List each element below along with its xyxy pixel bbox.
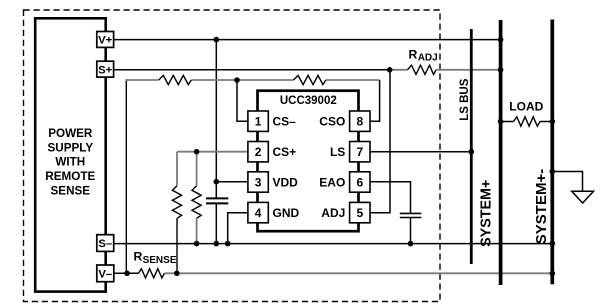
resistor RSENSE bbox=[139, 269, 165, 278]
svg-text:6: 6 bbox=[356, 175, 363, 189]
svg-text:VDD: VDD bbox=[273, 176, 299, 190]
svg-text:REMOTE: REMOTE bbox=[45, 170, 95, 183]
pin 2 box bbox=[248, 142, 268, 162]
resistor RADJ bbox=[390, 65, 501, 74]
svg-text:ADJ: ADJ bbox=[418, 52, 438, 63]
node LS/LS bus bbox=[469, 149, 475, 155]
svg-text:LS: LS bbox=[330, 145, 345, 159]
pin name EAO bbox=[319, 176, 345, 190]
terminal S- bbox=[97, 235, 114, 252]
node V-/SYSTEM- bbox=[550, 271, 556, 277]
svg-text:LOAD: LOAD bbox=[509, 99, 543, 113]
wire V- right segment (grey) bbox=[164, 272, 552, 274]
label RSENSE bbox=[134, 249, 177, 266]
node GND/S- bbox=[225, 241, 231, 247]
node gnd branch/SYSTEM- bbox=[550, 169, 556, 175]
node C2/S- bbox=[408, 241, 414, 247]
svg-text:1: 1 bbox=[255, 115, 262, 129]
resistor R4 (vertical, CS+ to S-) bbox=[192, 186, 201, 244]
svg-text:LS BUS: LS BUS bbox=[459, 78, 471, 121]
terminal V- bbox=[97, 265, 114, 282]
pin name CSO bbox=[319, 115, 345, 129]
pin name CS- bbox=[273, 115, 297, 129]
wire CS+ riser left (grey upper lead) bbox=[176, 152, 178, 186]
resistor LOAD bbox=[514, 117, 541, 126]
load resistor wire bbox=[501, 121, 553, 123]
svg-text:R: R bbox=[409, 47, 418, 61]
pin 6 box bbox=[350, 172, 370, 192]
dashed enclosure border bbox=[24, 10, 441, 302]
label SYSTEM+- bbox=[533, 169, 550, 244]
resistor R1 (S+ sense to CS-) bbox=[159, 75, 192, 84]
svg-text:V+: V+ bbox=[98, 35, 113, 47]
svg-text:UCC39002: UCC39002 bbox=[280, 95, 337, 107]
svg-text:SENSE: SENSE bbox=[143, 255, 177, 266]
pin 8 box bbox=[350, 111, 370, 131]
label LOAD bbox=[509, 99, 543, 113]
svg-text:CSO: CSO bbox=[319, 115, 345, 129]
wire S+ to node bbox=[114, 69, 390, 71]
pin 5 box bbox=[350, 202, 370, 222]
svg-text:SENSE: SENSE bbox=[50, 184, 90, 197]
label RADJ bbox=[409, 47, 438, 63]
terminal V+ bbox=[97, 32, 114, 48]
svg-text:3: 3 bbox=[255, 175, 262, 189]
node C1/S- bbox=[214, 241, 220, 247]
pin name ADJ bbox=[321, 206, 345, 220]
pin name LS bbox=[330, 145, 345, 159]
svg-text:CS+: CS+ bbox=[273, 145, 297, 159]
svg-text:SUPPLY: SUPPLY bbox=[47, 141, 93, 154]
svg-text:7: 7 bbox=[356, 145, 363, 159]
svg-text:5: 5 bbox=[356, 206, 363, 220]
pin 3 box bbox=[248, 172, 268, 192]
svg-text:8: 8 bbox=[356, 115, 363, 129]
label SYSTEM+ bbox=[478, 180, 494, 247]
svg-text:R: R bbox=[134, 249, 143, 263]
IC U1 UCC39002 body bbox=[258, 91, 359, 232]
node S+/ADJ bbox=[387, 67, 393, 73]
power supply label bbox=[45, 127, 95, 197]
node CS- bbox=[234, 77, 240, 83]
pin 1 box bbox=[248, 111, 268, 131]
wire GND pin 4 to S- bbox=[228, 213, 248, 244]
pin name VDD bbox=[273, 176, 299, 190]
pin name CS+ bbox=[273, 145, 297, 159]
node R4/S- bbox=[194, 241, 200, 247]
node V+/VDD bbox=[214, 37, 220, 43]
LS bus bbox=[470, 29, 473, 264]
svg-text:V–: V– bbox=[98, 268, 112, 280]
wire LS pin 7 to LS bus bbox=[370, 151, 471, 153]
svg-text:2: 2 bbox=[255, 145, 262, 159]
svg-text:GND: GND bbox=[273, 206, 300, 220]
capacitor C1 (VDD bypass) bbox=[206, 198, 228, 243]
svg-text:POWER: POWER bbox=[48, 127, 93, 140]
node CS+/R4 bbox=[194, 149, 200, 155]
wire S- line bbox=[114, 243, 552, 245]
svg-text:EAO: EAO bbox=[319, 176, 345, 190]
node LOAD/SYSTEM- bbox=[550, 119, 556, 125]
node V+/SYSTEM+ bbox=[498, 37, 504, 43]
svg-text:CS–: CS– bbox=[273, 115, 297, 129]
wire CS- sense line (grey) bbox=[126, 79, 380, 81]
terminal S+ bbox=[97, 61, 114, 77]
node V-/sense A bbox=[124, 271, 130, 277]
wire CS+ line (grey) bbox=[177, 151, 248, 153]
wire CS+ second riser (grey) bbox=[196, 152, 198, 186]
resistor R3 (vertical, CS+ to V-) bbox=[172, 186, 181, 273]
label LS BUS bbox=[459, 78, 471, 121]
capacitor C2 (EAO compensation) bbox=[400, 213, 422, 243]
pin name GND bbox=[273, 206, 300, 220]
wire EAO lead bbox=[370, 182, 411, 214]
power supply box bbox=[35, 18, 106, 291]
wire VDD pin 3 lead bbox=[216, 181, 248, 183]
svg-text:ADJ: ADJ bbox=[321, 206, 345, 220]
svg-text:4: 4 bbox=[255, 206, 262, 220]
node VDD/C1 bbox=[214, 179, 220, 185]
wire ADJ riser bbox=[370, 70, 390, 213]
ground symbol bbox=[572, 191, 594, 203]
node V-/sense B bbox=[174, 271, 180, 277]
node S-/SYSTEM- bbox=[550, 241, 556, 247]
wire sense V- riser bbox=[125, 79, 127, 273]
wire V+ to SYSTEM+ bbox=[114, 39, 501, 41]
wire CSO drop to pin 8 bbox=[370, 80, 380, 121]
node LOAD/SYSTEM+ bbox=[498, 119, 504, 125]
svg-text:S+: S+ bbox=[98, 64, 113, 76]
pin 7 box bbox=[350, 142, 370, 162]
node RADJ/SYSTEM+ bbox=[498, 67, 504, 73]
svg-text:SYSTEM+-: SYSTEM+- bbox=[533, 169, 550, 244]
wire V- left segment bbox=[114, 272, 139, 274]
wire VDD drop from V+ bbox=[215, 40, 217, 198]
resistor R2 (CSO feedback) bbox=[294, 75, 326, 84]
wire CS- node to pin 1 bbox=[237, 80, 248, 121]
wire ground branch bbox=[552, 172, 582, 192]
label UCC39002 bbox=[280, 95, 337, 107]
svg-text:SYSTEM+: SYSTEM+ bbox=[478, 180, 494, 247]
SYSTEM- bus bbox=[550, 20, 554, 285]
SYSTEM+ bus bbox=[499, 20, 503, 285]
svg-text:S–: S– bbox=[98, 238, 112, 250]
svg-text:WITH: WITH bbox=[55, 156, 85, 169]
pin 4 box bbox=[248, 202, 268, 222]
